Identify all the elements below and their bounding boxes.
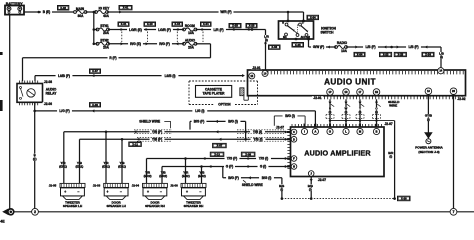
svg-text:BTN1: BTN1: [100, 24, 109, 28]
wire W/R (F) to ignition switch: [107, 10, 304, 14]
svg-text:+: +: [107, 190, 109, 194]
page edge marks: [0, 52, 5, 224]
svg-text:J2-03: J2-03: [93, 183, 101, 187]
connector X-03: [269, 45, 281, 49]
svg-text:X-06: X-06: [245, 152, 251, 156]
svg-text:−: −: [120, 190, 122, 194]
svg-text:L/G (I): L/G (I): [195, 109, 204, 113]
svg-text:ROOM: ROOM: [185, 24, 195, 28]
svg-text:R (F): R (F): [109, 56, 116, 60]
speaker tweeter RH: [169, 183, 206, 207]
svg-text:RADIO: RADIO: [337, 41, 348, 45]
ground arrow to page 1: [2, 208, 14, 215]
svg-text:SHIELD WIRE: SHIELD WIRE: [242, 183, 263, 187]
svg-text:20A: 20A: [103, 45, 110, 49]
terminal 26: [450, 88, 457, 95]
connector dashed links: [122, 32, 203, 43]
svg-text:B/G (F): B/G (F): [194, 120, 205, 124]
connector X-04: [354, 52, 365, 56]
ignition switch SW1: [279, 20, 314, 40]
wire battery B+ feed: [24, 11, 74, 13]
svg-text:R/G (F): R/G (F): [159, 42, 170, 46]
svg-text:(ER2): (ER2): [144, 174, 152, 178]
svg-text:+: +: [186, 190, 188, 194]
svg-text:B/G (I): B/G (I): [262, 176, 272, 180]
svg-text:(ER2): (ER2): [182, 174, 190, 178]
svg-text:J2-07: J2-07: [318, 178, 326, 182]
svg-text:2: 2: [34, 210, 36, 214]
svg-text:+: +: [147, 190, 149, 194]
svg-text:MAIN: MAIN: [76, 7, 85, 11]
svg-text:(ER1): (ER1): [118, 164, 126, 168]
svg-text:J2-02: J2-02: [457, 97, 465, 101]
svg-text:L/G (F): L/G (F): [59, 109, 69, 113]
wire amplifier ground bus (shielded): [281, 197, 396, 200]
svg-text:X-12: X-12: [132, 142, 138, 146]
svg-text:J2-01: J2-01: [252, 66, 260, 70]
svg-text:20A: 20A: [188, 45, 195, 49]
svg-text:J2-06: J2-06: [170, 183, 178, 187]
svg-text:LG/R (E): LG/R (E): [129, 28, 142, 32]
shield wire label 2: [242, 180, 263, 187]
svg-text:B: B: [282, 22, 284, 25]
svg-text:J2-06: J2-06: [44, 102, 52, 106]
svg-text:J2-04: J2-04: [132, 183, 140, 187]
cassette connector: [240, 88, 244, 96]
wire L/R (F): [196, 28, 266, 32]
svg-text:(I): (I): [345, 110, 348, 114]
connector X-23: [380, 52, 392, 56]
svg-text:20A: 20A: [103, 31, 110, 35]
svg-text:SPEAKER LH: SPEAKER LH: [63, 204, 82, 208]
wire audio unit ground to page 7: [453, 95, 455, 209]
connector X-20: [246, 24, 257, 28]
svg-text:OPTION: OPTION: [218, 102, 231, 106]
svg-text:AUDIO UNIT: AUDIO UNIT: [324, 77, 376, 86]
svg-text:L/B (F): L/B (F): [408, 45, 418, 49]
svg-text:+: +: [64, 190, 66, 194]
fuse ROOM 10A: [183, 24, 197, 35]
battery: [5, 2, 24, 15]
svg-text:7: 7: [453, 210, 455, 214]
wire L6/B (F) relay to audio unit: [35, 74, 245, 81]
connector X-12: [129, 142, 142, 146]
amplifier terminal J ground: [279, 171, 328, 199]
svg-text:Y/R (I): Y/R (I): [253, 130, 262, 134]
connector X-05: [292, 43, 304, 48]
connector X-04: [201, 22, 212, 26]
connector X-10: [144, 22, 156, 26]
wire B/G ground drain rear: [223, 167, 282, 199]
connector X-02: [58, 6, 69, 11]
wire battery ground: [9, 15, 11, 210]
wire L/R to audio unit: [263, 30, 269, 72]
svg-text:(ER1): (ER1): [59, 164, 67, 168]
svg-text:Y/R (F): Y/R (F): [152, 130, 162, 134]
svg-text:WIRE: WIRE: [389, 103, 397, 107]
connector X-07: [90, 69, 101, 73]
node B (E): [38, 10, 52, 14]
svg-text:−: −: [160, 190, 162, 194]
svg-text:(I): (I): [427, 117, 430, 121]
node 7 ground: [450, 208, 457, 215]
svg-text:X-24: X-24: [425, 53, 431, 57]
connector X-06: [90, 103, 101, 107]
power antenna symbol: [424, 132, 433, 144]
wire LG/R: [108, 28, 184, 32]
wire B/G shield drain front: [190, 120, 247, 141]
svg-text:A: A: [314, 130, 316, 134]
svg-text:SWITCH: SWITCH: [320, 30, 334, 34]
page bottom rail: [14, 211, 474, 213]
svg-text:SPEAKER RH: SPEAKER RH: [145, 204, 165, 208]
speaker tweeter LH: [48, 183, 85, 207]
fuse BTN2 20A: [96, 38, 110, 49]
svg-text:X-04: X-04: [174, 22, 180, 26]
svg-text:1P: 1P: [328, 91, 331, 94]
svg-text:IG KEY: IG KEY: [99, 6, 111, 10]
wire fuse bus: [86, 11, 97, 13]
svg-text:B/G (F): B/G (F): [228, 176, 239, 180]
svg-text:(I): (I): [329, 110, 332, 114]
svg-text:B/G (I): B/G (I): [228, 120, 238, 124]
wire relay ground B (F): [32, 103, 38, 210]
svg-text:J2-07: J2-07: [385, 122, 393, 126]
amplifier top terminals: [301, 124, 379, 135]
svg-text:(I): (I): [265, 38, 268, 42]
fuse AUDIO 20A: [183, 38, 197, 49]
connector X-04: [307, 15, 319, 19]
svg-text:Y/B (I): Y/B (I): [253, 137, 262, 141]
svg-text:B: B: [375, 130, 377, 134]
svg-text:−: −: [200, 190, 202, 194]
connector X-13: [210, 152, 224, 156]
svg-text:(ER2): (ER2): [159, 174, 167, 178]
svg-text:X-23: X-23: [398, 53, 404, 57]
svg-text:L/B (F): L/B (F): [365, 45, 375, 49]
svg-text:X-01: X-01: [121, 22, 127, 26]
svg-text:SHIELD WIRE: SHIELD WIRE: [139, 120, 160, 124]
svg-text:10A: 10A: [188, 31, 195, 35]
node 2 ground: [32, 208, 39, 215]
svg-text:(I): (I): [280, 188, 283, 192]
connector X-07: [213, 143, 227, 147]
svg-text:(ER2): (ER2): [198, 174, 206, 178]
fuse IG KEY 40A: [95, 6, 111, 18]
svg-text:W/R (F): W/R (F): [220, 10, 231, 14]
svg-text:80A: 80A: [78, 14, 85, 18]
wire Y/B front speaker -: [80, 137, 288, 183]
svg-text:BTN2: BTN2: [100, 38, 109, 42]
svg-text:X-07: X-07: [217, 144, 223, 148]
svg-text:Y/B (F): Y/B (F): [152, 137, 162, 141]
svg-text:(I): (I): [440, 55, 443, 59]
svg-text:1R: 1R: [344, 91, 347, 94]
svg-text:(I): (I): [375, 110, 378, 114]
svg-text:Y/G (F): Y/G (F): [227, 157, 237, 161]
svg-text:SPEAKER LH: SPEAKER LH: [106, 204, 125, 208]
wire G right speakers -: [162, 165, 288, 184]
wire R (F) to audio relay: [23, 44, 211, 81]
svg-text:(ER1): (ER1): [102, 164, 110, 168]
connector X-23: [394, 52, 406, 56]
svg-text:SPEAKER RH: SPEAKER RH: [184, 204, 204, 208]
svg-text:X-06: X-06: [92, 103, 98, 107]
svg-text:C: C: [293, 130, 295, 134]
svg-text:G (F): G (F): [226, 165, 233, 169]
svg-text:B/G (I): B/G (I): [285, 114, 295, 118]
svg-text:X-26: X-26: [401, 197, 407, 201]
fuse MAIN 80A: [74, 7, 87, 18]
wire shield drain B/R: [329, 119, 395, 198]
svg-text:G (I): G (I): [260, 165, 266, 169]
svg-text:X-04: X-04: [357, 53, 363, 57]
svg-text:R/G (E): R/G (E): [130, 42, 141, 46]
svg-text:X-05: X-05: [295, 43, 301, 47]
connector X-20: [229, 24, 241, 28]
svg-text:G: G: [329, 130, 331, 134]
svg-text:X-20: X-20: [232, 24, 238, 28]
terminal 14: [438, 68, 444, 74]
wire drops to switch: [287, 12, 289, 21]
svg-text:G/W (F): G/W (F): [313, 45, 324, 49]
wire R/G: [108, 42, 184, 46]
svg-text:(I): (I): [359, 110, 362, 114]
amplifier connector bracket B/G: [274, 114, 305, 130]
svg-text:Y/G (I): Y/G (I): [259, 157, 268, 161]
svg-text:J2-01: J2-01: [313, 96, 321, 100]
svg-text:(SECTION J-3): (SECTION J-3): [418, 150, 439, 154]
wire L/G (F) relay to amplifier: [33, 109, 315, 124]
svg-text:L/R (F): L/R (F): [213, 28, 223, 32]
svg-text:J2-07: J2-07: [276, 126, 284, 130]
svg-text:L6/B (I): L6/B (I): [165, 74, 176, 78]
speaker wire labels: [59, 161, 206, 178]
svg-text:X-04: X-04: [310, 16, 316, 20]
svg-text:(I): (I): [309, 188, 312, 192]
svg-text:(ER1): (ER1): [75, 164, 83, 168]
svg-text:X-07: X-07: [92, 69, 98, 73]
terminal 15: [249, 73, 255, 79]
svg-text:L6/B (F): L6/B (F): [58, 74, 70, 78]
connector X-01: [118, 22, 129, 26]
svg-text:X-20: X-20: [249, 24, 255, 28]
fuse RADIO 10A: [335, 41, 348, 53]
connector X-01: [119, 6, 132, 10]
svg-text:−: −: [78, 190, 80, 194]
speaker door LH: [92, 183, 129, 207]
wire Y/G right speakers +: [147, 157, 288, 184]
svg-text:RELAY: RELAY: [46, 91, 58, 95]
connector X-24: [422, 52, 434, 56]
relay audio relay: [17, 80, 57, 106]
amplifier left terminals: [287, 129, 297, 169]
audio unit bottom terminals: [327, 89, 380, 96]
svg-text:10A: 10A: [341, 49, 348, 53]
wire Y/R front speaker +: [64, 130, 288, 184]
speaker door RH: [130, 183, 167, 207]
wire L/B (F) to audio unit: [346, 45, 445, 67]
amplifier U2: [287, 124, 384, 177]
cassette tape player (option): [189, 81, 258, 106]
fuse BTN1 20A: [96, 24, 110, 35]
svg-text:1N: 1N: [375, 91, 378, 94]
svg-text:J2-05: J2-05: [49, 183, 57, 187]
svg-text:X-23: X-23: [383, 53, 389, 57]
svg-text:1T: 1T: [359, 91, 362, 94]
svg-text:AUDIO: AUDIO: [185, 38, 196, 42]
terminal 10: [262, 70, 268, 76]
svg-text:4E: 4E: [0, 220, 5, 223]
shielded speaker wires to amplifier: [326, 99, 381, 124]
connector X-04: [172, 22, 183, 26]
terminal 13: [425, 88, 432, 95]
svg-text:X-04: X-04: [203, 22, 209, 26]
svg-text:X-13: X-13: [214, 152, 220, 156]
svg-text:J2-08: J2-08: [44, 80, 52, 84]
svg-text:X-02: X-02: [60, 6, 66, 10]
svg-text:X-01: X-01: [123, 6, 129, 10]
svg-text:(F): (F): [33, 157, 37, 161]
svg-text:X-03: X-03: [271, 45, 277, 49]
audio unit: [244, 70, 466, 100]
svg-text:H: H: [293, 165, 295, 169]
wire G/W (F): [309, 39, 337, 49]
shield wire label: [139, 120, 170, 129]
svg-text:AUDIO AMPLIFIER: AUDIO AMPLIFIER: [304, 148, 371, 157]
svg-text:40A: 40A: [103, 14, 110, 18]
wire GY/B to power antenna: [424, 95, 432, 133]
svg-text:LG/R (F): LG/R (F): [158, 28, 171, 32]
svg-text:X-10: X-10: [147, 22, 153, 26]
connector X-06: [241, 152, 255, 156]
svg-text:D: D: [293, 137, 295, 141]
svg-text:L: L: [345, 130, 347, 134]
svg-text:(I): (I): [389, 155, 392, 159]
svg-text:TAPE PLAYER: TAPE PLAYER: [203, 92, 225, 96]
connector X-26: [398, 196, 411, 201]
svg-text:F: F: [293, 157, 295, 161]
svg-text:B (E): B (E): [43, 10, 50, 14]
